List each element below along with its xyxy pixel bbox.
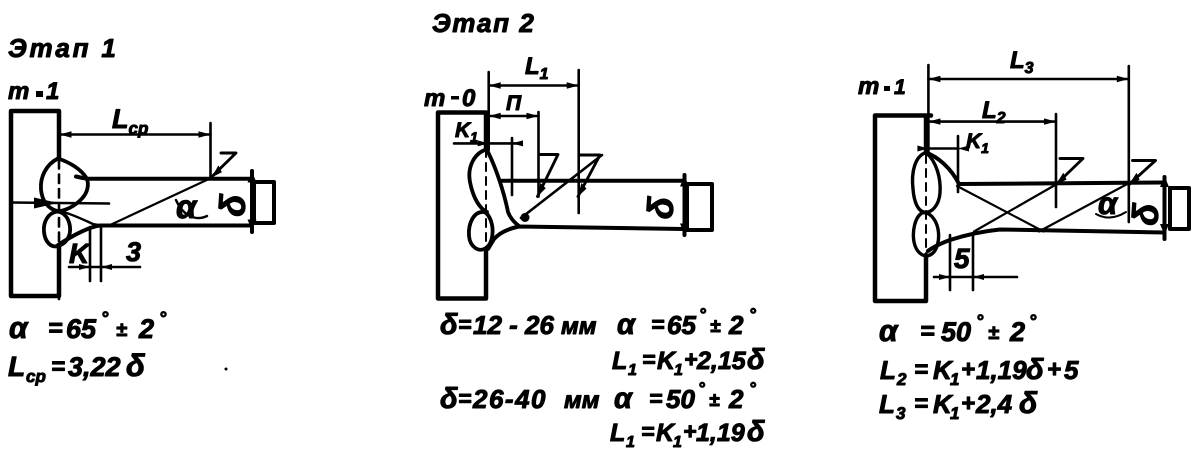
svg-text:Этап 1: Этап 1: [8, 33, 119, 63]
svg-text:L: L: [879, 389, 895, 419]
svg-text:δ: δ: [639, 194, 682, 220]
svg-text:±: ±: [709, 390, 720, 411]
svg-text:мм: мм: [564, 387, 600, 414]
svg-text:±: ±: [710, 316, 721, 337]
svg-text:=: =: [649, 385, 662, 411]
svg-text:2,4: 2,4: [975, 389, 1013, 419]
svg-text:L: L: [610, 419, 625, 447]
svg-text:+: +: [683, 418, 696, 444]
svg-text:1: 1: [950, 404, 959, 423]
svg-text:=: =: [48, 314, 63, 342]
svg-text:5: 5: [1064, 355, 1079, 385]
svg-text:3: 3: [126, 237, 141, 267]
svg-text:δ: δ: [1019, 387, 1038, 420]
svg-text:5: 5: [954, 243, 970, 274]
svg-text:3,22: 3,22: [68, 352, 121, 382]
svg-text:12 - 26: 12 - 26: [473, 310, 554, 340]
svg-text:2: 2: [1009, 317, 1025, 347]
svg-text:26-40: 26-40: [472, 384, 547, 414]
svg-text:=: =: [51, 353, 65, 380]
svg-text:+: +: [684, 346, 697, 372]
svg-text:1: 1: [674, 362, 683, 379]
svg-text:50: 50: [941, 317, 971, 347]
svg-text:+: +: [1047, 356, 1061, 383]
svg-text:°: °: [976, 311, 984, 331]
svg-text:±: ±: [116, 319, 127, 341]
svg-text:+: +: [961, 390, 975, 417]
svg-text:L: L: [880, 355, 896, 385]
svg-text:1,19: 1,19: [696, 419, 745, 447]
svg-text:±: ±: [988, 322, 999, 344]
svg-text:°: °: [749, 379, 756, 398]
svg-text:m: m: [8, 78, 29, 105]
svg-text:α: α: [614, 383, 633, 415]
svg-text:m: m: [424, 85, 445, 112]
svg-text:2: 2: [138, 314, 154, 344]
svg-text:α: α: [879, 315, 899, 348]
svg-text:1,19: 1,19: [976, 355, 1027, 385]
svg-text:δ: δ: [747, 416, 765, 448]
svg-text:δ: δ: [1026, 354, 1044, 386]
svg-text:α: α: [1098, 186, 1119, 221]
svg-text:δ: δ: [747, 344, 765, 376]
svg-text:α: α: [9, 312, 29, 345]
svg-text:3: 3: [896, 404, 906, 423]
svg-text:2: 2: [896, 370, 907, 389]
svg-text:50: 50: [666, 384, 695, 414]
svg-text:m: m: [858, 73, 879, 100]
svg-text:1: 1: [626, 434, 635, 451]
svg-text:=: =: [651, 311, 664, 337]
svg-text:L: L: [8, 351, 25, 382]
svg-text:2: 2: [728, 310, 744, 340]
svg-text:1: 1: [673, 434, 682, 451]
svg-text:0: 0: [462, 85, 476, 112]
svg-text:ср: ср: [26, 367, 46, 386]
svg-text:δ: δ: [211, 192, 254, 218]
svg-text:°: °: [749, 305, 756, 324]
svg-text:=: =: [458, 385, 471, 411]
svg-text:+: +: [961, 356, 975, 383]
svg-text:δ: δ: [1124, 201, 1167, 227]
svg-text:δ: δ: [126, 348, 145, 383]
svg-text:=: =: [642, 346, 655, 372]
svg-text:°: °: [698, 379, 705, 398]
svg-text:=: =: [458, 311, 471, 337]
svg-text:=: =: [920, 317, 935, 345]
svg-text:1: 1: [46, 78, 59, 105]
svg-text:K: K: [69, 238, 91, 269]
svg-text:°: °: [159, 308, 167, 328]
svg-text:δ: δ: [440, 383, 458, 415]
svg-text:=: =: [641, 418, 654, 444]
svg-text:П: П: [506, 92, 522, 115]
svg-text:α: α: [617, 309, 636, 341]
svg-text:1: 1: [894, 76, 906, 99]
svg-text:α: α: [176, 188, 198, 225]
svg-text:1: 1: [628, 362, 637, 379]
svg-text:65: 65: [66, 314, 97, 344]
svg-text:L: L: [612, 347, 627, 375]
svg-text:Этап 2: Этап 2: [432, 8, 535, 38]
svg-text:2,15: 2,15: [696, 347, 747, 375]
svg-text:°: °: [1029, 311, 1037, 331]
svg-text:мм: мм: [561, 313, 597, 340]
svg-text:2: 2: [728, 384, 744, 414]
svg-text:°: °: [101, 308, 109, 328]
svg-text:=: =: [914, 390, 928, 417]
svg-text:1: 1: [950, 370, 959, 389]
svg-text:°: °: [699, 305, 706, 324]
svg-text:δ: δ: [440, 309, 458, 341]
svg-text:65: 65: [667, 310, 696, 340]
svg-text:=: =: [914, 356, 928, 383]
